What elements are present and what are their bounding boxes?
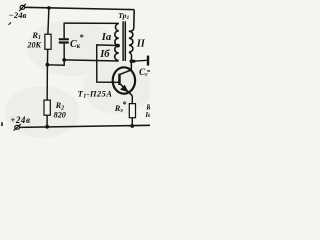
node Ck bottom junction	[62, 58, 66, 62]
terminal +24v bottom left	[14, 124, 21, 131]
wire R2 top lead	[46, 65, 48, 100]
wire collector lead	[120, 61, 131, 74]
transformer Tr1 winding Ia+Ib (left, 5 bumps)	[115, 23, 119, 60]
wire -24 rail right vertical down to winding II top	[129, 10, 134, 32]
transformer core	[122, 21, 124, 61]
wire emitter down	[131, 96, 133, 104]
svg-text:*: *	[79, 32, 84, 42]
terminal -24v top left	[19, 4, 26, 11]
wire Ck bottom lead	[63, 44, 65, 60]
svg-text:Iв: Iв	[144, 111, 150, 119]
stray mark left edge	[1, 122, 3, 126]
node Re/rail junction	[130, 124, 134, 128]
node collector junction	[130, 59, 134, 63]
node rail/output junction	[132, 60, 135, 63]
wire bias to winding Ib bottom	[64, 60, 118, 61]
node winding tap dot	[116, 44, 120, 48]
svg-text:Т1-П25А: Т1-П25А	[78, 88, 113, 99]
wire Re bottom lead	[131, 118, 133, 126]
capacitor Ck	[59, 38, 69, 43]
node base-bias junction	[46, 63, 50, 67]
capacitor Cg plate	[147, 56, 149, 66]
stray mark top left	[9, 22, 11, 24]
svg-text:Iб: Iб	[99, 49, 110, 60]
wire tap to base: horizontal, vertical, base lead	[97, 45, 119, 82]
wire to output cap	[131, 60, 147, 61]
svg-text:820: 820	[54, 110, 66, 119]
wire R2 bottom lead	[46, 115, 48, 127]
node junction rail/R1	[47, 6, 51, 10]
resistor Re	[129, 104, 135, 118]
stray dash fragment right of Cg	[147, 70, 150, 71]
node R2/rail junction	[45, 125, 49, 129]
wire R1 top lead	[48, 8, 49, 34]
svg-text:20К: 20К	[26, 41, 41, 50]
svg-text:+24в: +24в	[10, 115, 30, 125]
wire bottom rail	[20, 125, 150, 127]
resistor R1	[45, 34, 51, 49]
transistor base bar	[118, 74, 121, 85]
wire winding II bottom tail	[129, 52, 132, 61]
wire R1 bottom lead	[46, 49, 48, 64]
svg-text:Iа: Iа	[101, 32, 112, 43]
wire top rail	[25, 7, 135, 9]
svg-text:−24в: −24в	[9, 10, 27, 20]
transformer winding II (right, 3 bumps)	[129, 31, 133, 52]
resistor R2	[44, 100, 50, 115]
transistor T1 circle	[113, 67, 135, 93]
wire tank top	[64, 22, 119, 24]
wire Ck top lead	[63, 23, 65, 38]
wire bias node to Ck bottom	[47, 60, 64, 65]
transistor emitter with arrow	[120, 84, 132, 96]
svg-text:II: II	[136, 38, 146, 49]
